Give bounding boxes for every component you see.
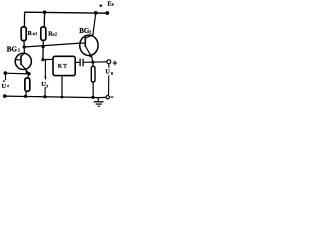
- plus sign output: [113, 61, 117, 65]
- transistor BG2 emitter: [85, 46, 93, 66]
- arrow Uv: [44, 77, 46, 81]
- svg-text:к2: к2: [53, 33, 58, 37]
- wire Uv branch lower: [44, 87, 46, 97]
- node bus-Rk2 junction: [43, 10, 47, 14]
- wire input terminal to emitter node: [5, 72, 29, 75]
- svg-text:у: у: [46, 84, 48, 88]
- svg-text:1: 1: [18, 47, 20, 52]
- node Uv-bus dot: [43, 95, 46, 98]
- wire Uv branch upper: [44, 60, 46, 78]
- wire node A to BG2 base (slanted): [24, 43, 80, 47]
- node Re-bus dot: [24, 95, 27, 98]
- wire box bottom pin: [61, 76, 63, 97]
- plus sign supply: [99, 4, 102, 7]
- transistor BG1 circle: [15, 53, 31, 69]
- wire box right to capacitor: [75, 61, 79, 63]
- wire node B to box KT left: [43, 58, 53, 60]
- transistor BG2 base bar: [84, 37, 86, 47]
- resistor Rk2: [41, 27, 46, 41]
- transistor BG2 circle: [80, 35, 98, 55]
- node cap-emitter junction dot: [92, 61, 95, 64]
- terminal input bottom dot: [3, 94, 7, 98]
- resistor Rk1: [21, 27, 26, 41]
- transistor BG2 emitter arrowhead: [89, 54, 92, 58]
- svg-text:U: U: [105, 69, 110, 76]
- terminal output minus ring: [106, 96, 109, 99]
- transistor BG1 emitter arrowhead: [26, 70, 30, 74]
- svg-text:б: б: [7, 84, 9, 88]
- wire input terminal stub down: [4, 73, 6, 80]
- node B dot: [41, 58, 44, 61]
- wire top bus: [25, 12, 108, 13]
- svg-text:к1: к1: [33, 32, 38, 36]
- wire Rk1 to node A: [23, 41, 25, 47]
- wire output vertical to minus ring: [108, 75, 110, 95]
- node Rn-bus dot: [91, 96, 94, 99]
- svg-text:BG: BG: [7, 45, 18, 53]
- wire bottom bus: [5, 96, 106, 98]
- capacitor C plates: [79, 59, 81, 67]
- transistor BG2 collector: [85, 13, 96, 38]
- terminal +Ek dot: [105, 11, 109, 15]
- svg-text:2: 2: [89, 30, 91, 35]
- wire Re to bottom bus: [25, 91, 28, 96]
- node A dot: [23, 45, 26, 48]
- wire output plus stub: [108, 64, 110, 68]
- transistor BG1 base lead: [15, 59, 21, 61]
- node bus-BG2 collector junction: [94, 11, 98, 15]
- minus sign output: [110, 96, 113, 98]
- wire Rn to bottom bus: [92, 82, 94, 97]
- ground: [97, 98, 99, 102]
- svg-text:н: н: [111, 71, 114, 76]
- node Rk2-slant crossing dot: [42, 45, 45, 48]
- transistor BG1 base bar: [20, 55, 22, 65]
- wire bus corner to resistor Rk1: [23, 12, 25, 28]
- svg-text:U: U: [2, 83, 7, 90]
- transistor BG1 collector: [21, 47, 24, 56]
- node emitter junction dot: [27, 72, 30, 75]
- svg-text:к: к: [112, 3, 115, 7]
- accent of U input: [3, 81, 4, 82]
- wire emitter node to resistor Re: [28, 74, 29, 78]
- svg-text:КТ: КТ: [58, 64, 68, 70]
- wire capacitor to output plus terminal: [84, 61, 107, 64]
- transistor BG1 emitter: [21, 64, 29, 74]
- wire bus to resistor Rk2: [43, 12, 45, 27]
- wire Rk2 down to node B: [42, 40, 44, 59]
- node boxpin-bus dot: [61, 96, 64, 99]
- box KT: [53, 56, 75, 75]
- terminal output plus ring: [107, 60, 111, 64]
- transistor BG2 base lead: [80, 42, 86, 44]
- resistor Rn: [91, 66, 95, 82]
- resistor Re: [25, 78, 30, 91]
- terminal input top dot: [4, 71, 8, 75]
